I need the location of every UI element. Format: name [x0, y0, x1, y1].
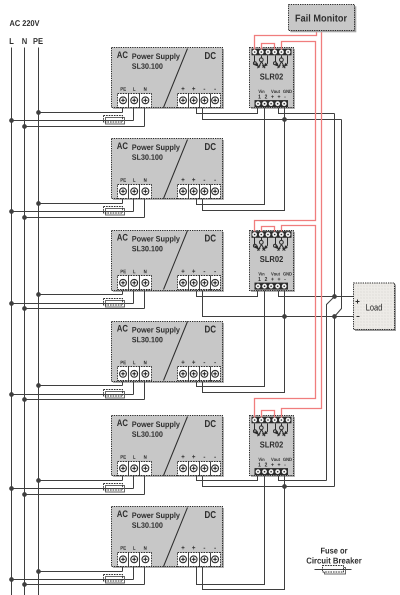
N wire to PS4 — [22, 382, 144, 402]
wire PS3 - output to GND line — [203, 291, 335, 317]
PE wire to PS6 — [36, 567, 122, 574]
fuse F1 — [104, 116, 125, 125]
fuse F3 — [104, 299, 125, 308]
wire U1 Vout to + bus — [279, 108, 335, 114]
N wire to PS5 — [22, 476, 144, 497]
red jumper U2 pins 2-4 — [262, 227, 275, 232]
fuse F5 — [104, 484, 125, 493]
wire PS2 + output up to U1 Vin2 — [197, 108, 265, 205]
wire PS6 + output up to U3 Vin2 — [197, 476, 265, 585]
wire PS1 - output to GND line — [203, 108, 342, 120]
internal diodes of U2 — [254, 238, 256, 245]
redundancy module U3 SLR02 — [250, 416, 295, 477]
fuse F2 — [104, 207, 125, 216]
red wire: U1 pin5 to U2 pin1 — [255, 42, 316, 232]
internal diodes of U3 — [254, 424, 256, 431]
+ bus jog below Load junction — [327, 297, 335, 421]
L wire to PS4 — [9, 382, 133, 397]
wire PS1 + output to U1 Vin1 — [197, 108, 258, 114]
PE wire to PS3 — [36, 291, 122, 297]
PE wire to PS4 — [36, 382, 122, 388]
L wire to PS1 — [9, 108, 133, 123]
- bus wire down to U3 GND line — [334, 317, 336, 487]
redundancy module U2 SLR02 — [250, 231, 295, 292]
red jumper U3 pins 2-4 — [262, 411, 275, 418]
- bus wire (down right side to Load) — [335, 120, 342, 317]
L wire to PS2 — [9, 199, 133, 214]
wire U2 GND down to PS4 - output — [203, 291, 287, 393]
red wire: U3 pin5 back to Fail Monitor — [282, 31, 322, 418]
L wire to PS6 — [9, 567, 133, 582]
N wire to PS6 — [22, 567, 144, 587]
+ bus wire (down right side to Load) — [334, 114, 336, 297]
wire U3 GND down to PS6 - output — [203, 476, 287, 590]
power supply PS4 (AC Power Supply SL30.100) — [112, 322, 224, 383]
power supply PS6 (AC Power Supply SL30.100) — [112, 507, 224, 568]
red wire: U2 pin5 to U3 pin1 — [255, 226, 316, 418]
PE wire to PS1 — [36, 108, 122, 115]
N wire to PS2 — [22, 199, 144, 220]
fail monitor box — [289, 5, 357, 33]
node - junction at Load — [332, 314, 353, 319]
PE bus wire — [38, 48, 40, 595]
internal diodes of U1 — [254, 56, 256, 63]
wire U1 GND down to PS2 - output — [203, 108, 287, 211]
fuse F4 — [104, 390, 125, 399]
wire PS3 + output to U2 Vin1 — [197, 291, 258, 297]
wire PS5 + output to U3 Vin1 — [197, 476, 258, 481]
redundancy module U1 SLR02 — [250, 48, 295, 109]
load box — [354, 283, 397, 331]
PE wire to PS2 — [36, 199, 122, 206]
node + junction at Load — [332, 294, 353, 299]
red wire: Fail Monitor to U1 pin1 — [255, 31, 317, 50]
wire PS4 + output up to U2 Vin2 — [197, 291, 265, 387]
red jumper U1 pins 2-4 — [262, 44, 275, 50]
fuse F6 — [104, 575, 125, 584]
N wire to PS3 — [22, 291, 144, 311]
+ bus wire down to U3 Vout line — [326, 421, 328, 481]
AC source label — [10, 20, 40, 26]
power supply PS3 (AC Power Supply SL30.100) — [112, 231, 224, 292]
fuse legend label — [307, 548, 362, 564]
L wire to PS5 — [9, 476, 133, 491]
PE wire to PS5 — [36, 476, 122, 483]
fuse legend symbol — [315, 566, 352, 575]
power supply PS1 (AC Power Supply SL30.100) — [112, 48, 224, 109]
bus labels L N PE — [10, 38, 43, 44]
N wire to PS1 — [22, 108, 144, 129]
power supply PS2 (AC Power Supply SL30.100) — [112, 139, 224, 200]
L bus wire — [11, 48, 13, 595]
wire U2 Vout to + bus — [279, 291, 335, 297]
L wire to PS3 — [9, 291, 133, 306]
wire PS5 - output to GND line — [203, 476, 335, 487]
power supply PS5 (AC Power Supply SL30.100) — [112, 416, 224, 477]
N bus wire — [24, 48, 26, 595]
wire U3 Vout to + bus — [279, 476, 327, 481]
